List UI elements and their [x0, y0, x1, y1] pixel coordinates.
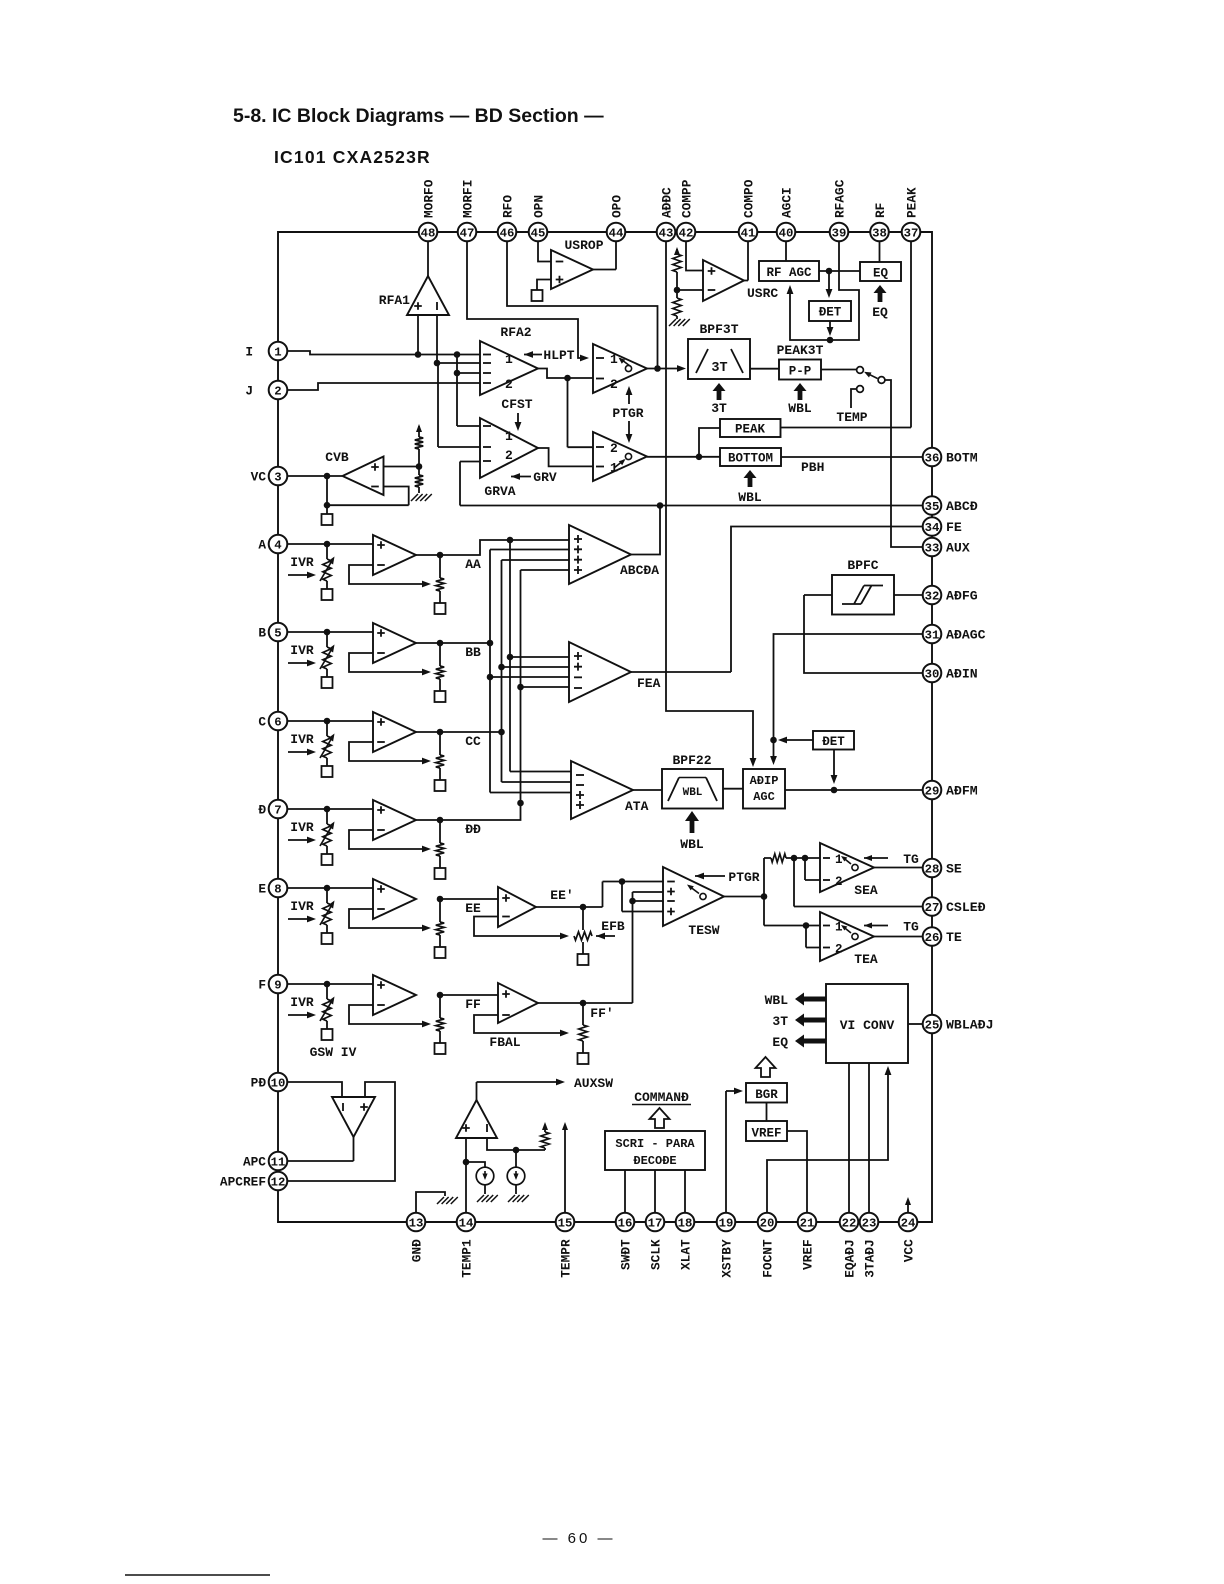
svg-text:3T: 3T [772, 1014, 788, 1029]
svg-text:47: 47 [460, 226, 475, 240]
svg-text:HLPT: HLPT [543, 348, 574, 363]
svg-text:27: 27 [925, 901, 940, 915]
svg-text:GNĐ: GNĐ [409, 1239, 424, 1262]
svg-text:26: 26 [925, 931, 940, 945]
svg-text:2: 2 [505, 448, 513, 463]
svg-text:EQ: EQ [873, 267, 889, 281]
svg-text:SEA: SEA [854, 883, 878, 898]
svg-text:P-P: P-P [789, 365, 812, 379]
svg-text:1: 1 [274, 345, 281, 359]
svg-text:CC: CC [465, 734, 481, 749]
svg-text:22: 22 [842, 1216, 857, 1230]
svg-text:J: J [245, 384, 253, 399]
svg-text:ĐET: ĐET [822, 735, 845, 749]
svg-text:15: 15 [558, 1216, 573, 1230]
svg-text:BGR: BGR [755, 1088, 778, 1102]
svg-text:24: 24 [901, 1216, 916, 1230]
svg-text:33: 33 [925, 541, 940, 555]
svg-text:AĐIP: AĐIP [750, 774, 779, 788]
svg-text:43: 43 [659, 226, 674, 240]
svg-text:28: 28 [925, 862, 940, 876]
svg-text:XLAT: XLAT [678, 1239, 693, 1270]
svg-text:IC101 CXA2523R: IC101 CXA2523R [274, 147, 431, 167]
svg-text:VREF: VREF [800, 1239, 815, 1270]
svg-text:31: 31 [925, 628, 940, 642]
svg-text:BOTM: BOTM [946, 451, 978, 466]
svg-text:COMPO: COMPO [741, 179, 756, 218]
svg-text:2: 2 [505, 377, 513, 392]
svg-text:8: 8 [274, 882, 281, 896]
svg-text:1: 1 [835, 921, 843, 935]
svg-text:AĐĐC: AĐĐC [659, 187, 674, 218]
svg-text:PEAK3T: PEAK3T [777, 343, 824, 358]
svg-text:AGC: AGC [753, 790, 775, 804]
svg-text:EQ: EQ [772, 1035, 788, 1050]
svg-text:RF AGC: RF AGC [766, 266, 812, 280]
svg-text:EQ: EQ [872, 305, 888, 320]
svg-text:OPO: OPO [609, 195, 624, 218]
svg-text:TESW: TESW [688, 923, 719, 938]
svg-text:SE: SE [946, 862, 962, 877]
svg-text:20: 20 [760, 1216, 775, 1230]
svg-text:12: 12 [271, 1175, 286, 1189]
svg-text:FOCNT: FOCNT [760, 1239, 775, 1278]
svg-text:25: 25 [925, 1018, 940, 1032]
svg-text:RFAGC: RFAGC [832, 179, 847, 218]
svg-text:32: 32 [925, 589, 940, 603]
svg-text:RFA1: RFA1 [379, 293, 410, 308]
svg-text:1: 1 [505, 429, 513, 444]
svg-text:MORFO: MORFO [421, 179, 436, 218]
svg-text:6: 6 [274, 715, 281, 729]
svg-text:PEAK: PEAK [904, 187, 919, 218]
svg-text:RFO: RFO [500, 195, 515, 218]
svg-text:VCC: VCC [901, 1239, 916, 1262]
svg-text:A: A [258, 538, 266, 553]
svg-text:1: 1 [610, 352, 618, 367]
svg-text:TEMP1: TEMP1 [459, 1239, 474, 1278]
svg-text:9: 9 [274, 978, 281, 992]
svg-text:AĐIN: AĐIN [946, 667, 978, 682]
svg-text:VC: VC [251, 470, 267, 485]
svg-text:21: 21 [800, 1216, 815, 1230]
svg-text:11: 11 [271, 1155, 286, 1169]
svg-text:SWĐT: SWĐT [618, 1239, 633, 1270]
svg-text:FBAL: FBAL [489, 1035, 520, 1050]
svg-text:TEMPR: TEMPR [558, 1239, 573, 1278]
svg-text:TEMP: TEMP [836, 410, 867, 425]
svg-text:3T: 3T [711, 401, 727, 416]
svg-text:IVR: IVR [290, 995, 314, 1010]
svg-text:PTGR: PTGR [612, 406, 643, 421]
svg-text:TEA: TEA [854, 952, 878, 967]
svg-text:GSW IV: GSW IV [310, 1045, 357, 1060]
svg-text:FEA: FEA [637, 676, 661, 691]
svg-text:MORFI: MORFI [460, 180, 475, 218]
svg-text:23: 23 [862, 1216, 877, 1230]
svg-text:COMMANĐ: COMMANĐ [634, 1090, 689, 1105]
svg-text:2: 2 [610, 377, 618, 392]
svg-text:WBL: WBL [765, 993, 789, 1008]
svg-text:CSLEĐ: CSLEĐ [946, 900, 986, 915]
svg-text:29: 29 [925, 784, 940, 798]
svg-text:19: 19 [719, 1216, 734, 1230]
svg-text:BPF3T: BPF3T [699, 322, 738, 337]
svg-text:TG: TG [903, 852, 919, 867]
svg-text:WBL: WBL [683, 787, 703, 799]
svg-text:SCRI - PARA: SCRI - PARA [615, 1137, 695, 1151]
svg-text:16: 16 [618, 1216, 633, 1230]
svg-text:ĐECOĐE: ĐECOĐE [633, 1154, 676, 1168]
svg-text:44: 44 [609, 226, 624, 240]
svg-text:IVR: IVR [290, 820, 314, 835]
svg-text:IVR: IVR [290, 899, 314, 914]
svg-text:PEAK: PEAK [735, 423, 766, 437]
svg-text:45: 45 [531, 226, 546, 240]
svg-text:ĐĐ: ĐĐ [465, 822, 481, 837]
svg-text:30: 30 [925, 667, 940, 681]
svg-text:35: 35 [925, 500, 940, 514]
svg-text:EQAĐJ: EQAĐJ [842, 1239, 857, 1277]
svg-text:RF: RF [873, 203, 888, 218]
svg-text:42: 42 [679, 226, 694, 240]
svg-text:— 60 —: — 60 — [542, 1530, 615, 1547]
svg-text:XSTBY: XSTBY [719, 1239, 734, 1278]
svg-text:7: 7 [274, 803, 281, 817]
svg-text:USROP: USROP [564, 238, 603, 253]
svg-text:COMPP: COMPP [679, 179, 694, 218]
svg-text:AĐFM: AĐFM [946, 784, 978, 799]
svg-text:FF': FF' [590, 1006, 613, 1021]
svg-text:AĐAGC: AĐAGC [946, 628, 986, 643]
svg-text:37: 37 [904, 226, 919, 240]
svg-text:E: E [258, 882, 266, 897]
svg-text:WBL: WBL [738, 490, 762, 505]
svg-text:GRV: GRV [533, 470, 557, 485]
svg-text:PBH: PBH [801, 460, 824, 475]
svg-text:USRC: USRC [747, 286, 778, 301]
svg-text:10: 10 [271, 1076, 286, 1090]
svg-text:2: 2 [610, 441, 618, 456]
svg-text:18: 18 [678, 1216, 693, 1230]
svg-text:OPN: OPN [531, 195, 546, 218]
svg-text:TG: TG [903, 920, 919, 935]
svg-text:ĐET: ĐET [819, 306, 842, 320]
svg-text:GRVA: GRVA [484, 484, 515, 499]
svg-text:5: 5 [274, 626, 281, 640]
svg-text:2: 2 [835, 875, 843, 889]
svg-text:VREF: VREF [751, 1127, 781, 1141]
svg-text:BPF22: BPF22 [672, 753, 711, 768]
svg-text:13: 13 [409, 1216, 424, 1230]
svg-text:WBL: WBL [680, 837, 704, 852]
svg-text:WBLAĐJ: WBLAĐJ [946, 1018, 993, 1033]
svg-text:AGCI: AGCI [779, 187, 794, 218]
svg-text:2: 2 [835, 943, 843, 957]
svg-text:BPFC: BPFC [847, 558, 878, 573]
svg-text:EFB: EFB [601, 919, 625, 934]
svg-text:IVR: IVR [290, 555, 314, 570]
svg-text:I: I [245, 345, 253, 360]
svg-text:3TAĐJ: 3TAĐJ [862, 1239, 877, 1277]
svg-text:1: 1 [835, 853, 843, 867]
svg-text:EE: EE [465, 901, 481, 916]
svg-text:34: 34 [925, 521, 940, 535]
svg-text:46: 46 [500, 226, 515, 240]
svg-text:4: 4 [274, 538, 282, 552]
svg-text:48: 48 [421, 226, 436, 240]
svg-text:VI CONV: VI CONV [840, 1018, 895, 1033]
svg-text:3T: 3T [711, 361, 727, 376]
svg-text:B: B [258, 626, 266, 641]
svg-text:40: 40 [779, 226, 794, 240]
svg-text:AA: AA [465, 557, 481, 572]
svg-text:WBL: WBL [788, 401, 812, 416]
svg-text:SCLK: SCLK [648, 1239, 663, 1270]
svg-text:APC: APC [243, 1155, 266, 1170]
svg-text:BOTTOM: BOTTOM [728, 452, 773, 466]
svg-text:PTGR: PTGR [728, 870, 759, 885]
svg-text:17: 17 [648, 1216, 663, 1230]
svg-text:ATA: ATA [625, 799, 649, 814]
svg-text:36: 36 [925, 451, 940, 465]
svg-text:CFST: CFST [501, 397, 532, 412]
svg-text:2: 2 [274, 384, 281, 398]
svg-text:3: 3 [274, 470, 281, 484]
svg-text:14: 14 [459, 1216, 474, 1230]
svg-text:IVR: IVR [290, 732, 314, 747]
svg-text:Đ: Đ [258, 803, 266, 818]
svg-text:RFA2: RFA2 [500, 325, 531, 340]
svg-text:38: 38 [872, 226, 887, 240]
svg-text:APCREF: APCREF [220, 1175, 266, 1190]
svg-text:1: 1 [505, 352, 513, 367]
svg-text:5-8. IC Block Diagrams — BD Se: 5-8. IC Block Diagrams — BD Section — [233, 105, 604, 127]
svg-text:EE': EE' [550, 888, 573, 903]
svg-text:AUX: AUX [946, 541, 970, 556]
svg-text:CVB: CVB [325, 450, 349, 465]
svg-text:F: F [258, 978, 266, 993]
svg-text:AĐFG: AĐFG [946, 589, 978, 604]
svg-text:FF: FF [465, 997, 481, 1012]
svg-text:C: C [258, 715, 266, 730]
svg-text:BB: BB [465, 645, 481, 660]
svg-text:39: 39 [832, 226, 847, 240]
svg-text:41: 41 [741, 226, 756, 240]
svg-text:AUXSW: AUXSW [574, 1076, 613, 1091]
svg-text:ABCĐA: ABCĐA [620, 563, 659, 578]
svg-text:TE: TE [946, 930, 962, 945]
svg-text:ABCĐ: ABCĐ [946, 499, 978, 514]
svg-text:PĐ: PĐ [251, 1076, 267, 1091]
svg-text:FE: FE [946, 520, 962, 535]
svg-text:IVR: IVR [290, 643, 314, 658]
